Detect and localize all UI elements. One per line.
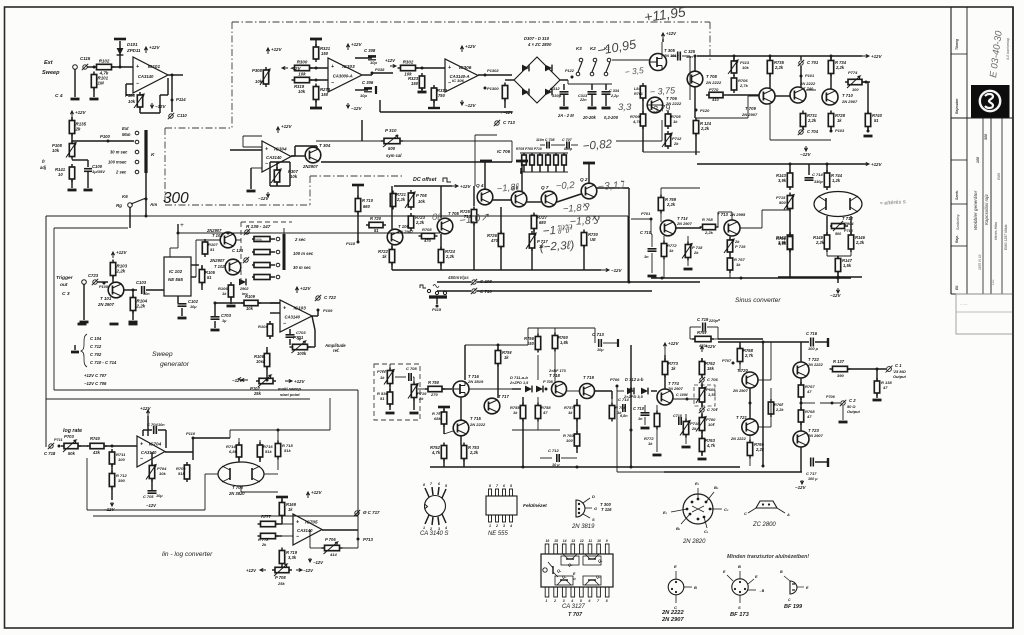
title block rotated text [984, 193, 989, 225]
label P106 [826, 395, 836, 399]
svg-text:C 716: C 716 [806, 331, 818, 336]
node P1302 [484, 74, 487, 77]
cap bar [352, 184, 364, 187]
wire [444, 431, 453, 434]
wire [690, 326, 701, 328]
svg-text:P706: P706 [826, 395, 836, 399]
resistor R708 [419, 233, 438, 238]
svg-text:3,9k: 3,9k [778, 178, 787, 183]
label 2N2222g [807, 362, 824, 367]
svg-text:T 720: T 720 [737, 368, 748, 373]
IC pinout NE555 body [486, 496, 517, 515]
label 1kd [513, 410, 518, 415]
wire [505, 79, 514, 81]
svg-text:P 310: P 310 [385, 128, 397, 133]
wire [316, 140, 384, 142]
resistor R769 [692, 336, 714, 341]
wire [74, 69, 76, 97]
wire [512, 466, 631, 468]
-12V arrow mid [238, 377, 241, 380]
bank resistor [252, 237, 275, 242]
svg-text:adj: adj [40, 165, 47, 170]
label 1kh [648, 441, 653, 446]
label out [60, 282, 68, 288]
svg-text:2902: 2902 [239, 287, 249, 291]
resistor R705b [665, 111, 670, 129]
label Q7 [541, 185, 549, 190]
svg-text:CA3140: CA3140 [297, 528, 313, 533]
label DC offset [413, 177, 437, 183]
svg-text:20-20k: 20-20k [582, 115, 597, 120]
label 22kb [469, 450, 479, 455]
wire [389, 404, 391, 410]
wire [800, 462, 802, 472]
-12V rail [104, 502, 116, 512]
svg-text:C 717: C 717 [806, 471, 817, 476]
ground [560, 107, 569, 110]
wire [876, 393, 878, 398]
svg-text:2×ZPD 1,5: 2×ZPD 1,5 [509, 381, 529, 385]
resistor R106 [228, 282, 233, 300]
-12V rail [460, 100, 476, 108]
svg-text:−12V: −12V [303, 568, 314, 573]
svg-text:1k: 1k [380, 375, 385, 380]
svg-text:150: 150 [321, 51, 329, 56]
label 68n [620, 414, 628, 418]
wire [863, 81, 870, 83]
svg-text:E₂: E₂ [695, 481, 700, 486]
label P605 [706, 387, 716, 392]
svg-text:C703: C703 [221, 313, 232, 318]
wire [769, 56, 771, 61]
svg-text:10k: 10k [255, 79, 263, 84]
wire [739, 362, 741, 372]
wire [769, 104, 771, 140]
label 1k [382, 254, 387, 259]
ground [653, 454, 662, 457]
wire [497, 345, 499, 350]
op-amp IC103 [280, 300, 312, 332]
label P704 [157, 466, 167, 471]
label 47f [882, 385, 888, 390]
svg-text:220pᴿ: 220pᴿ [708, 318, 721, 323]
input terminal [73, 65, 78, 70]
wire [276, 162, 278, 170]
label R777 [261, 514, 272, 519]
label P102 [250, 386, 261, 391]
label 2N2222e [469, 422, 486, 427]
wire [775, 95, 790, 97]
svg-text:R 720: R 720 [370, 216, 382, 221]
svg-text:3,3: 3,3 [618, 102, 632, 113]
2N2820 pins [663, 481, 729, 534]
svg-text:1k: 1k [222, 291, 227, 296]
wire [789, 250, 791, 278]
label 22k2 [815, 240, 825, 245]
label 02-200 [604, 115, 619, 120]
terminal C121 [243, 257, 249, 263]
cap bar7 [827, 458, 829, 467]
bias resistor [530, 153, 535, 172]
svg-text:P308: P308 [252, 68, 263, 73]
wire [277, 457, 279, 470]
ground [839, 421, 848, 424]
wire [651, 234, 653, 247]
title block rotated text [973, 190, 978, 230]
label R762 [705, 361, 716, 366]
module boundary [165, 127, 232, 129]
wire [762, 209, 790, 211]
enclosure line [46, 398, 310, 400]
wire [416, 67, 445, 69]
resistor R753 [461, 443, 466, 462]
cap bar6 [827, 338, 829, 347]
svg-text:2N 2222: 2N 2222 [469, 422, 486, 427]
label 2N 2222c [705, 80, 722, 85]
potentiometer P307 [271, 167, 281, 185]
label T 709 [745, 106, 756, 111]
-12V arrow [296, 568, 314, 573]
wire [701, 431, 703, 438]
svg-text:+12V: +12V [300, 286, 312, 291]
svg-text:3: 3 [563, 599, 565, 603]
label P114 [176, 97, 186, 102]
label P717 [537, 239, 548, 244]
svg-text:R 139 - 147: R 139 - 147 [246, 224, 271, 229]
section label linlog [162, 551, 213, 558]
label P701 [293, 335, 304, 340]
svg-text:10k: 10k [52, 148, 60, 153]
bias resistor [522, 153, 527, 172]
potentiometer P720 [384, 368, 394, 387]
title block divider [951, 159, 967, 161]
label 10k fr [52, 148, 60, 153]
wire [430, 466, 512, 468]
label P103 [125, 93, 136, 98]
terminal C1 out [886, 366, 893, 373]
title block column line [982, 118, 984, 294]
wire [616, 140, 662, 142]
svg-text:T 721: T 721 [736, 415, 747, 420]
wire [132, 290, 134, 297]
svg-text:Q 2: Q 2 [580, 177, 588, 182]
resistor R763 [699, 436, 704, 455]
resistor R766 [747, 440, 752, 459]
section label generator [160, 361, 190, 368]
pinout BF199 [780, 570, 809, 602]
svg-text:8: 8 [489, 484, 491, 488]
label R714 [226, 444, 236, 449]
module boundary [164, 128, 166, 205]
svg-text:R 750: R 750 [428, 380, 440, 385]
svg-text:Output: Output [893, 374, 906, 379]
ground [90, 98, 99, 101]
wire [178, 232, 440, 234]
wire [460, 397, 462, 420]
resistor R767b [727, 255, 732, 273]
svg-text:2,2k: 2,2k [835, 65, 845, 70]
wire [308, 316, 315, 347]
svg-text:51k: 51k [265, 449, 272, 454]
transistor Q4 [477, 189, 493, 205]
logo glyph [985, 94, 993, 108]
label P720 [377, 369, 387, 374]
svg-text:25k: 25k [253, 391, 262, 396]
resistor R135 [69, 118, 86, 137]
resistor R770 [706, 92, 728, 98]
wire [778, 276, 862, 278]
label 660 [363, 204, 371, 209]
label P105 [99, 285, 109, 289]
label R 138 [881, 380, 892, 385]
wire [800, 56, 802, 60]
label C3 [62, 291, 70, 297]
svg-text:R777: R777 [261, 514, 272, 519]
label 2k2 [673, 141, 679, 146]
-12V rail [601, 268, 623, 273]
grounds row [78, 323, 138, 326]
label T 740 [803, 86, 814, 91]
svg-text:Ø C 717: Ø C 717 [363, 510, 380, 515]
svg-text:+: + [331, 64, 334, 70]
ground [682, 446, 691, 449]
wire [729, 236, 731, 240]
svg-text:P109: P109 [323, 308, 333, 313]
wire [662, 39, 664, 42]
bias resistor [538, 153, 543, 172]
+12V rail [70, 110, 86, 117]
wire [758, 426, 771, 428]
svg-text:C723: C723 [88, 273, 99, 278]
label 1k8 [837, 118, 842, 123]
label 2N2907d [741, 112, 758, 117]
wire [72, 159, 88, 161]
svg-text:2k: 2k [693, 250, 699, 255]
terminal C110b [471, 288, 477, 294]
node [830, 55, 833, 58]
wire [436, 297, 438, 304]
+12V rail [295, 286, 311, 293]
svg-text:K6: K6 [122, 194, 128, 199]
enclosure line [627, 216, 629, 282]
svg-text:→B: →B [758, 589, 765, 593]
ground [386, 412, 395, 415]
handwritten -0,82 [582, 137, 613, 153]
wire [317, 310, 319, 316]
svg-text:5: 5 [580, 599, 582, 603]
wire [240, 486, 242, 492]
label 51c [265, 449, 272, 454]
transistor T717 [484, 398, 500, 414]
label 51b [874, 118, 879, 123]
wire [576, 419, 578, 433]
wire [484, 161, 486, 189]
label R169 [286, 502, 297, 507]
wire [630, 345, 632, 467]
label multi sweep [278, 386, 302, 391]
title block text 300-100 [984, 133, 988, 140]
svg-text:P100: P100 [100, 134, 111, 139]
potentiometer P715 [784, 193, 794, 212]
pinout 2N3819 [576, 498, 592, 518]
wire [521, 161, 523, 191]
T703 internals [222, 466, 260, 482]
wire [357, 212, 359, 242]
label P 708 [416, 193, 427, 198]
svg-text:0,2-200: 0,2-200 [604, 115, 619, 120]
svg-text:3,9k: 3,9k [778, 241, 787, 246]
label K [151, 152, 155, 158]
svg-text:+12V: +12V [460, 184, 472, 189]
svg-text:R740: R740 [90, 436, 101, 441]
wire [340, 547, 358, 549]
svg-text:+12V: +12V [871, 54, 883, 59]
wire [694, 87, 696, 118]
label R718 [282, 443, 293, 448]
svg-text:S: S [738, 605, 741, 610]
resistor bridge left [502, 83, 507, 102]
label ref [333, 348, 340, 353]
svg-text:generator: generator [160, 361, 190, 368]
label C712 [548, 448, 559, 453]
wire [644, 405, 646, 412]
wire [815, 461, 828, 463]
wire [124, 289, 137, 291]
label cluster [516, 147, 542, 151]
wire [193, 437, 230, 439]
+12V rail [663, 341, 679, 349]
svg-text:D 711-a-b: D 711-a-b [510, 375, 528, 380]
label R701 [634, 92, 643, 96]
svg-text:2N 2222: 2N 2222 [730, 436, 747, 441]
label C710b [633, 406, 645, 411]
label 410 [711, 97, 719, 102]
wire [428, 101, 440, 108]
resistor R279 [313, 84, 318, 103]
label BF 199 [784, 604, 803, 610]
transistor T716 FET [453, 381, 469, 397]
node P708c [545, 388, 548, 391]
transistor T709 [759, 88, 775, 104]
wire [876, 369, 878, 381]
bank resistor [252, 275, 275, 280]
label R778x [258, 537, 269, 542]
wire [694, 56, 696, 71]
svg-text:−: − [136, 81, 139, 87]
svg-text:4,7k: 4,7k [431, 450, 441, 455]
svg-text:51k: 51k [284, 448, 291, 453]
svg-text:1975 VI 10: 1975 VI 10 [978, 254, 982, 270]
wire [656, 405, 658, 413]
terminal C109 [471, 279, 477, 285]
switch contact [135, 150, 139, 154]
svg-text:P774: P774 [848, 70, 858, 75]
svg-text:2N 2222: 2N 2222 [665, 101, 682, 106]
svg-text:1n: 1n [638, 417, 643, 421]
svg-text:51: 51 [210, 247, 215, 252]
svg-text:T 304: T 304 [319, 143, 331, 148]
relay contact [604, 58, 611, 76]
svg-text:−12V: −12V [830, 293, 842, 298]
label R705 [671, 114, 681, 119]
svg-text:+12V: +12V [668, 341, 680, 346]
wire [642, 99, 644, 114]
svg-text:4,7k: 4,7k [632, 119, 642, 124]
wire [112, 276, 114, 282]
capacitor C708c [409, 373, 411, 381]
supply list [84, 373, 107, 378]
label 470b [490, 238, 499, 243]
ground [410, 412, 419, 415]
wire [642, 127, 644, 152]
svg-text:4 × ZC 2800: 4 × ZC 2800 [527, 42, 552, 47]
ground [84, 189, 93, 192]
ground [641, 427, 650, 430]
svg-text:10k: 10k [418, 199, 426, 204]
svg-text:2,2k: 2,2k [415, 220, 425, 225]
enclosure line [54, 389, 358, 391]
ground [588, 107, 597, 110]
svg-text:out: out [60, 282, 68, 288]
svg-text:470: 470 [490, 238, 499, 243]
label C 704c [707, 407, 718, 412]
svg-text:P 708: P 708 [543, 380, 554, 384]
node [266, 379, 269, 382]
wire [557, 194, 581, 202]
resistor R750 [425, 386, 445, 391]
CA3140S notch [425, 504, 428, 509]
wire [413, 376, 414, 378]
bank contact [276, 275, 280, 279]
pinout ZC2800 [748, 501, 785, 513]
resistor R109 [241, 300, 261, 305]
transistor Q2 [581, 183, 597, 199]
svg-text:T 715: T 715 [470, 416, 481, 421]
wire [695, 117, 748, 119]
svg-text:Ell.: Ell. [955, 285, 959, 290]
wire [259, 457, 261, 462]
amplitude pot P701 [290, 341, 311, 353]
wire [413, 398, 415, 410]
wire [528, 327, 595, 329]
+12V rail [862, 54, 883, 59]
label L84 [634, 87, 640, 91]
label c pin [744, 512, 747, 516]
svg-text:−: − [265, 161, 268, 167]
label T 710 [842, 93, 853, 98]
label 47kb [431, 450, 441, 455]
wire [111, 487, 113, 500]
ground [648, 275, 657, 278]
label P719 [417, 391, 427, 396]
svg-text:P770: P770 [709, 87, 719, 92]
wire [86, 458, 88, 510]
transistor T103 [220, 232, 236, 248]
svg-text:C 704: C 704 [147, 422, 158, 427]
label 470 [423, 238, 431, 243]
switch contact [443, 291, 446, 294]
svg-text:500: 500 [835, 232, 842, 236]
potentiometer P716 [830, 221, 848, 231]
wire [551, 144, 565, 146]
wire [697, 55, 862, 57]
svg-text:270: 270 [430, 392, 438, 397]
svg-text:2,2k: 2,2k [774, 65, 784, 70]
label R279 [320, 87, 331, 92]
dual transistor T712 oval [814, 192, 862, 217]
label IC306b [452, 78, 465, 83]
terminal [48, 443, 54, 449]
